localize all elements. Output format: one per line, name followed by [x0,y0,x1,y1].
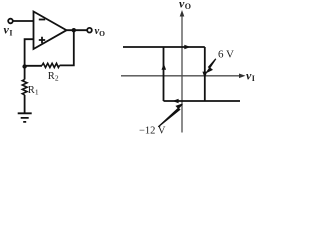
leader line for 6 V [207,59,216,72]
input terminal vI open circle [8,19,13,24]
wire op-amp plus input left and down to node A [25,39,34,66]
wire R1 to ground [24,95,26,113]
wire node A to R2 [25,65,42,67]
op-amp U1 triangle [34,12,67,50]
hysteresis upper level line [123,46,205,48]
arrow right on upper line [184,45,190,50]
vO axis vertical line [181,13,183,133]
resistor R1 zigzag [22,80,27,95]
svg-text:−12 V: −12 V [139,126,166,137]
wire op-amp output [67,29,88,31]
node A junction dot [22,64,26,68]
hysteresis lower level line [164,100,241,102]
arrow down on right branch [202,72,207,79]
wire R2 to output junction [60,30,74,65]
hysteresis right branch [204,47,206,101]
resistor R2 zigzag [42,63,60,67]
svg-text:6 V: 6 V [218,49,234,61]
wire input to op-amp inverting input [13,20,33,22]
vO axis arrowhead [180,10,185,17]
vI axis horizontal line [121,75,242,77]
hysteresis left branch [163,47,165,101]
wire node A down to R1 [24,67,26,80]
leader line for -12 V [158,104,182,127]
svg-text:vO: vO [179,0,191,11]
arrow left on lower line [172,99,178,104]
op-amp plus sign [39,37,45,43]
arrow up on left branch [162,64,167,70]
output junction dot [72,28,76,32]
ground symbol [18,113,32,122]
op-amp minus sign [39,19,45,21]
vI axis arrowhead [239,74,246,79]
output terminal vO open circle [87,28,92,33]
